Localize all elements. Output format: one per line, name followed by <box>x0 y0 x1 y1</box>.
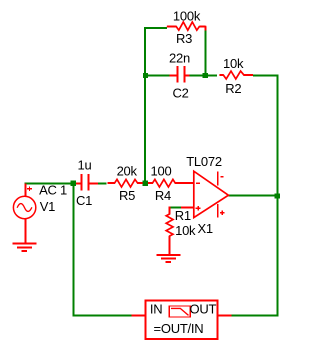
svg-text:C1: C1 <box>76 193 92 208</box>
svg-text:R2: R2 <box>225 81 241 96</box>
svg-text:10k: 10k <box>223 56 244 71</box>
svg-text:TL072: TL072 <box>186 154 222 169</box>
svg-text:OUT: OUT <box>190 302 217 317</box>
svg-text:C2: C2 <box>172 86 188 101</box>
svg-text:R4: R4 <box>155 188 171 203</box>
svg-text:R3: R3 <box>176 31 192 46</box>
svg-text:1u: 1u <box>78 157 92 172</box>
svg-text:20k: 20k <box>117 163 138 178</box>
svg-text:10k: 10k <box>175 223 196 238</box>
svg-text:100k: 100k <box>173 8 201 23</box>
svg-text:R1: R1 <box>175 208 191 223</box>
svg-text:IN: IN <box>150 302 163 317</box>
svg-text:22n: 22n <box>169 50 190 65</box>
svg-text:100: 100 <box>151 163 172 178</box>
svg-text:=OUT/IN: =OUT/IN <box>154 321 204 336</box>
svg-text:X1: X1 <box>198 221 213 236</box>
svg-text:V1: V1 <box>40 199 55 214</box>
svg-text:R5: R5 <box>119 188 135 203</box>
svg-text:AC 1: AC 1 <box>39 183 67 198</box>
